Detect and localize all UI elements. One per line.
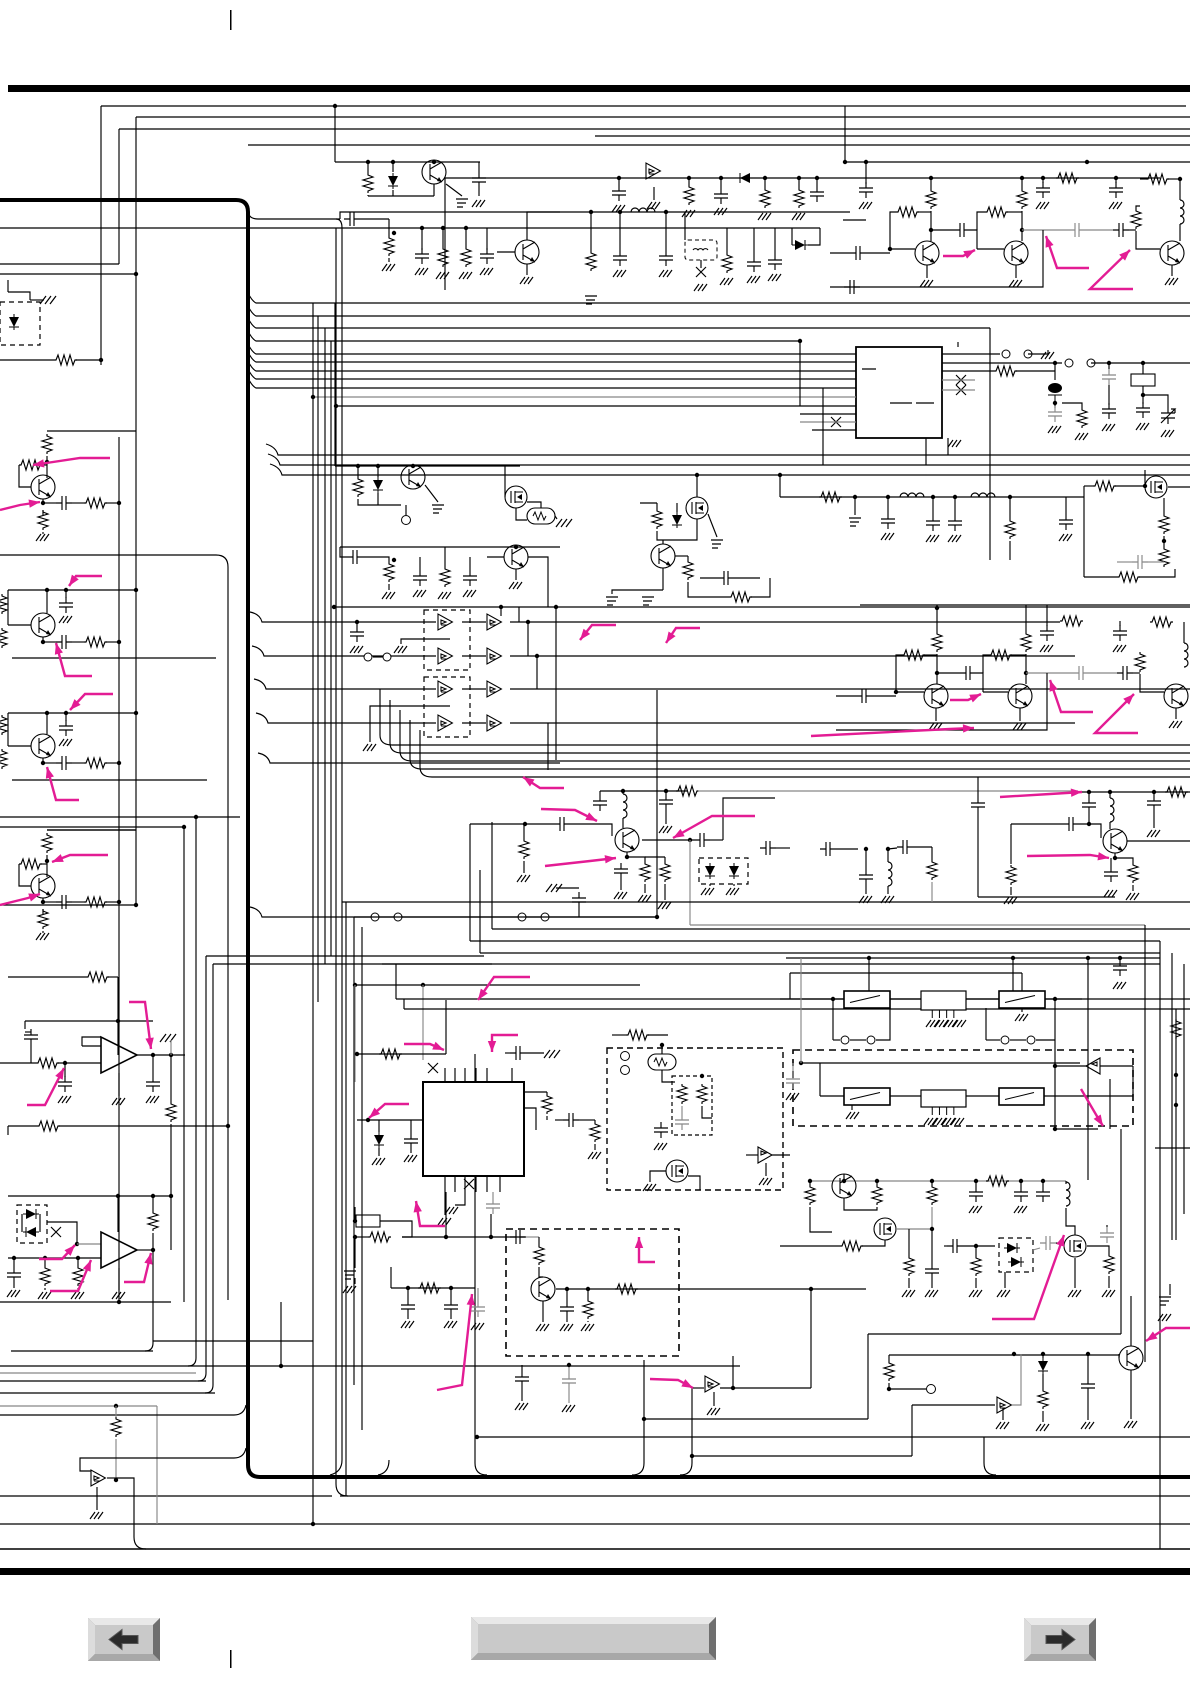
FET Q15 bbox=[1145, 476, 1167, 498]
wire bbox=[720, 178, 722, 188]
wire y902 bbox=[342, 901, 1190, 903]
annotation arrow buffer row1 bbox=[580, 625, 616, 640]
resistor bbox=[872, 1185, 882, 1205]
ground bbox=[436, 272, 449, 279]
capacitor C10 bbox=[714, 188, 728, 204]
wire bbox=[1065, 497, 1067, 514]
wire IC1 left pin bbox=[357, 1119, 423, 1121]
wire bbox=[377, 493, 379, 505]
annotation arrow B4 bbox=[650, 1379, 693, 1388]
wire drop to top cluster bbox=[334, 106, 336, 162]
resistor feedback R bbox=[86, 972, 109, 982]
wire base bbox=[487, 556, 504, 558]
junction bbox=[1041, 176, 1045, 180]
wire bbox=[936, 621, 938, 632]
crystal filter FL2 bbox=[921, 1090, 966, 1107]
wire bbox=[407, 1288, 409, 1299]
wire y1406 bbox=[0, 1405, 157, 1407]
junction bbox=[64, 588, 68, 592]
wire link bbox=[527, 622, 529, 656]
ground bbox=[1126, 893, 1139, 900]
junction bbox=[842, 1179, 846, 1183]
wire bbox=[876, 1008, 890, 1040]
wire bbox=[1004, 1272, 1006, 1288]
wire bus y656 left bbox=[252, 646, 436, 656]
wire bbox=[1140, 674, 1164, 692]
dashed relay unit box bbox=[793, 1050, 1133, 1126]
wire bbox=[357, 466, 359, 477]
terminal bbox=[621, 1052, 630, 1061]
wire bbox=[1062, 403, 1082, 408]
relay RL4 bbox=[999, 1088, 1044, 1105]
terminal bbox=[402, 516, 411, 525]
wire bbox=[504, 492, 506, 497]
capacitor bbox=[1117, 666, 1133, 680]
wire bbox=[983, 691, 1008, 693]
junction to bus bbox=[117, 501, 121, 505]
wire IC1 top pin 4 bbox=[475, 1068, 477, 1082]
resistor bbox=[590, 1122, 600, 1142]
wire bundle y753 bbox=[390, 743, 1190, 753]
diode D1 bbox=[388, 173, 398, 189]
wire bbox=[1179, 224, 1181, 241]
wire bbox=[832, 999, 834, 1040]
wire bbox=[1010, 824, 1012, 864]
wire emitter bbox=[42, 898, 44, 902]
wire y817 bbox=[0, 816, 240, 818]
junction bbox=[930, 1179, 934, 1183]
wire bbox=[1065, 1181, 1067, 1184]
wire bbox=[462, 655, 486, 657]
wire bbox=[516, 508, 527, 520]
wire bbox=[622, 791, 624, 794]
wire output bbox=[137, 1054, 185, 1056]
wire bbox=[65, 590, 67, 598]
crystal filter FL1 bbox=[921, 991, 966, 1010]
wire elbow bbox=[403, 999, 405, 1009]
ground bbox=[948, 535, 961, 542]
annotation arrow VCO bbox=[639, 1237, 655, 1262]
wire bbox=[1088, 813, 1090, 824]
wire bbox=[650, 1171, 666, 1182]
resistor output bbox=[84, 637, 107, 647]
ground bbox=[1048, 426, 1061, 433]
wire bbox=[442, 228, 444, 247]
wire inter-cell bbox=[12, 779, 207, 781]
wire vertical x492 bbox=[491, 822, 493, 929]
wire bbox=[152, 1055, 154, 1076]
capacitor C2 bbox=[344, 212, 360, 226]
wire bbox=[170, 1055, 172, 1102]
capacitor bbox=[1132, 555, 1148, 569]
wire bbox=[888, 1355, 890, 1361]
wire bbox=[360, 218, 389, 220]
wire bbox=[1044, 1095, 1098, 1097]
wire collector up bbox=[527, 212, 560, 240]
junction bbox=[76, 1256, 80, 1260]
capacitor bbox=[856, 689, 872, 703]
wire bbox=[820, 1095, 844, 1097]
wire bbox=[77, 1258, 79, 1266]
ground bbox=[71, 1292, 84, 1299]
hatch gnd bbox=[642, 597, 654, 605]
switch bbox=[1001, 1036, 1009, 1044]
wire bbox=[774, 228, 776, 254]
wire vertical x912 bbox=[911, 1405, 913, 1456]
wire y1126 bbox=[59, 1125, 228, 1127]
resistor bbox=[1006, 865, 1016, 885]
wire base bbox=[890, 248, 915, 250]
wire vertical from V3 bbox=[118, 129, 120, 264]
wire emitter out bbox=[446, 184, 462, 196]
wire bbox=[566, 1317, 568, 1322]
transistor Q20 bbox=[615, 828, 639, 852]
wire relay rail y958 bbox=[786, 957, 1160, 959]
junction to bus bbox=[117, 900, 121, 904]
wire y274 bbox=[0, 273, 136, 275]
wire IC left pin 9 bbox=[800, 421, 856, 423]
wire base loop bbox=[19, 465, 31, 487]
ground under IC bbox=[948, 440, 961, 447]
wire bbox=[401, 639, 450, 644]
ground bbox=[1113, 645, 1126, 652]
capacitor C21 bbox=[1048, 406, 1062, 422]
wire bbox=[1010, 887, 1012, 895]
wire vertical x1055 bbox=[1054, 999, 1056, 1129]
wire IC pin line 2 bbox=[248, 352, 856, 362]
capacitor C9 bbox=[612, 185, 626, 201]
wire bbox=[82, 1037, 101, 1046]
wire bbox=[106, 641, 119, 643]
wire bbox=[568, 1365, 570, 1373]
wire bbox=[433, 184, 435, 196]
wire bbox=[43, 502, 56, 504]
transistor Q10 bbox=[401, 465, 425, 489]
wire bbox=[1056, 1243, 1064, 1244]
wire y1437 bbox=[477, 1436, 1190, 1438]
junction bbox=[809, 1287, 813, 1291]
capacitor C19 bbox=[844, 280, 860, 294]
wire collector down bbox=[528, 557, 548, 607]
capacitor bbox=[1104, 866, 1118, 882]
wire elbow onto bus bbox=[680, 1456, 692, 1475]
wire bbox=[465, 228, 467, 247]
wire bus mid y341 bbox=[248, 331, 800, 341]
junction bbox=[45, 711, 49, 715]
wire drop bbox=[409, 720, 411, 759]
resistor bbox=[519, 839, 529, 859]
wire bbox=[526, 1052, 544, 1054]
wire bbox=[1109, 792, 1111, 798]
resistor R12 bbox=[985, 207, 1008, 217]
wire collector bbox=[642, 839, 694, 841]
wire elbow bbox=[378, 1460, 389, 1475]
resistor bbox=[1060, 616, 1083, 626]
ground bbox=[112, 1098, 125, 1105]
wire bbox=[1100, 1065, 1133, 1067]
terminal bbox=[927, 1385, 936, 1394]
junction bbox=[366, 1118, 370, 1122]
resistor R7 bbox=[684, 185, 694, 205]
junction bbox=[151, 1248, 155, 1252]
wire bbox=[8, 1125, 37, 1127]
wire bbox=[657, 519, 697, 540]
wire vertical x342b bbox=[330, 902, 342, 1475]
ground bbox=[463, 590, 476, 597]
wire bbox=[975, 1246, 977, 1256]
wire y1381 bbox=[0, 1380, 206, 1382]
ground bbox=[654, 1143, 667, 1150]
wire bbox=[106, 502, 119, 504]
ground bbox=[720, 278, 733, 285]
ground bbox=[515, 1403, 528, 1410]
wire IC1 top pin 3 bbox=[464, 1068, 466, 1082]
node bbox=[41, 761, 45, 765]
wire bbox=[780, 998, 844, 1000]
ground bbox=[792, 213, 805, 220]
ground stub bbox=[546, 884, 562, 892]
wire bbox=[665, 810, 667, 824]
wire bbox=[72, 641, 84, 643]
junction bbox=[1086, 956, 1090, 960]
ground bbox=[1161, 430, 1174, 437]
junction bbox=[660, 1043, 664, 1047]
resistor ladder stub bbox=[0, 715, 7, 735]
wire bbox=[1163, 536, 1165, 547]
junction on bus V1 bbox=[333, 104, 337, 108]
wire bbox=[527, 502, 541, 508]
junction bbox=[411, 464, 415, 468]
junction bbox=[226, 1124, 230, 1128]
junction bbox=[420, 226, 424, 230]
resistor bbox=[1038, 1389, 1048, 1409]
wire bbox=[696, 475, 698, 497]
junction bbox=[567, 1363, 571, 1367]
wire bus V5 bbox=[595, 135, 1190, 137]
FET Q32 bbox=[1064, 1235, 1086, 1257]
wire rail y466 bbox=[335, 465, 520, 467]
crossed pin wire bbox=[428, 1063, 438, 1073]
ground bbox=[560, 1324, 573, 1331]
capacitor bbox=[1100, 1227, 1114, 1243]
wire bbox=[1136, 231, 1160, 249]
node collector bbox=[45, 460, 49, 464]
wire y1373 bbox=[0, 1372, 196, 1374]
switch S2 bbox=[1065, 359, 1073, 367]
capacitor bypass bbox=[59, 720, 73, 736]
capacitor C18 bbox=[1109, 182, 1123, 198]
capacitor C12 bbox=[859, 182, 873, 198]
FET Q13 bbox=[686, 497, 708, 519]
wire y999 bbox=[396, 998, 1190, 1000]
annotation arrow op-amp2 output bbox=[124, 1253, 151, 1282]
wire bbox=[963, 1245, 995, 1247]
ground bbox=[90, 1512, 103, 1519]
transistor Q30 bbox=[832, 1174, 856, 1198]
wire vertical x206 bbox=[198, 956, 206, 1381]
resistor bbox=[1021, 632, 1031, 652]
wire bbox=[594, 1144, 596, 1150]
wire rail y547 bbox=[340, 546, 560, 548]
wire bbox=[521, 1365, 523, 1371]
junction bbox=[1020, 176, 1024, 180]
wire collector bbox=[46, 590, 48, 613]
resistor bbox=[368, 1232, 391, 1242]
wire bbox=[896, 655, 902, 692]
wire IC1 bottom pin 2 bbox=[454, 1176, 456, 1192]
wire bbox=[1066, 1208, 1075, 1235]
wire bbox=[692, 1387, 704, 1389]
ground bbox=[38, 1292, 51, 1299]
annotation arrow C16 bbox=[1046, 236, 1089, 268]
wire bbox=[810, 1207, 832, 1232]
wire bbox=[751, 578, 770, 597]
junction bbox=[444, 1235, 448, 1239]
wire vertical x313 bbox=[312, 303, 314, 1524]
ground filter leg bbox=[951, 1118, 964, 1125]
wire bbox=[816, 178, 818, 186]
ground bbox=[701, 888, 714, 895]
wire bbox=[1091, 362, 1190, 364]
capacitor bbox=[786, 1073, 800, 1089]
wire y956 to center bbox=[206, 955, 484, 957]
junction bbox=[332, 605, 336, 609]
resistor bbox=[986, 1176, 1009, 1186]
wire bbox=[612, 1034, 626, 1036]
resistor bbox=[379, 1049, 402, 1059]
resistor top cluster R1 bbox=[363, 173, 373, 193]
capacitor bbox=[572, 892, 586, 908]
wire power leg bbox=[118, 1268, 120, 1290]
wire bbox=[1022, 229, 1069, 231]
junction bbox=[134, 588, 138, 592]
capacitor bbox=[413, 570, 427, 586]
wire bbox=[407, 1315, 409, 1319]
capacitor bbox=[971, 797, 985, 813]
ground bbox=[925, 1290, 938, 1297]
wire bbox=[30, 299, 44, 301]
junction bbox=[194, 815, 198, 819]
wire bbox=[865, 885, 867, 894]
wire y1366 bbox=[0, 1365, 740, 1367]
junction bbox=[1024, 671, 1028, 675]
wire vertical x1088 bbox=[1087, 958, 1089, 1180]
junction bbox=[875, 1179, 879, 1183]
junction bbox=[523, 822, 527, 826]
wire bbox=[888, 848, 897, 849]
junction bbox=[589, 210, 593, 214]
junction bbox=[134, 272, 138, 276]
wire bbox=[421, 228, 423, 250]
page nav blank button bbox=[471, 1617, 716, 1660]
annotation arrow cell4 top bbox=[52, 855, 108, 862]
wire bbox=[746, 1154, 758, 1156]
wire relay rail y973 bbox=[790, 972, 1022, 974]
wire bus mid y455 bbox=[266, 444, 1190, 455]
resistor bbox=[1165, 787, 1188, 797]
wire vertical x157 bbox=[156, 1406, 158, 1524]
wire bbox=[1025, 621, 1027, 632]
wire rail y1181 bbox=[810, 1180, 1066, 1182]
variable resistor bbox=[384, 562, 394, 582]
wire bbox=[1009, 497, 1011, 519]
capacitor coupling bbox=[56, 496, 72, 510]
page tick mark top bbox=[230, 10, 232, 30]
wire bbox=[43, 641, 56, 643]
wire bbox=[555, 516, 557, 519]
wire bbox=[931, 1279, 933, 1288]
wire rail y178 long bbox=[445, 177, 1160, 179]
junction bbox=[1118, 956, 1122, 960]
transistor Q3 bbox=[915, 241, 939, 265]
wire op-amp top rail bbox=[25, 1020, 153, 1022]
wire bbox=[753, 228, 755, 256]
resonator bbox=[527, 508, 555, 524]
ground bbox=[343, 1286, 356, 1293]
wire bbox=[455, 1192, 465, 1205]
resistor bbox=[1150, 617, 1173, 627]
wire power leg bbox=[118, 1073, 120, 1096]
wire bbox=[44, 1288, 46, 1290]
junction bbox=[565, 1287, 569, 1291]
wire IC pin line 5 bbox=[248, 378, 856, 388]
junction bbox=[475, 1435, 479, 1439]
junction bbox=[617, 176, 621, 180]
wire vertical x213 bbox=[205, 964, 213, 1393]
ground filter leg bbox=[942, 1118, 955, 1125]
ground bbox=[536, 1324, 549, 1331]
ground filter leg bbox=[926, 1020, 939, 1027]
wire bbox=[546, 1116, 548, 1120]
ground bbox=[382, 592, 395, 599]
annotation arrow IC1 left pin bbox=[369, 1104, 409, 1118]
capacitor bbox=[718, 571, 734, 585]
wire IC1 bottom pin 6 bbox=[499, 1176, 501, 1192]
wire bbox=[72, 901, 84, 903]
ground bbox=[997, 1290, 1010, 1297]
wire bbox=[926, 265, 928, 278]
wire IC1 top pin 2 bbox=[454, 1068, 456, 1082]
wire rail regulator bbox=[335, 161, 480, 163]
tap dot bbox=[392, 231, 396, 235]
wire bbox=[354, 1278, 356, 1284]
wire base line bbox=[1011, 823, 1063, 825]
wire vertical x184 bbox=[183, 827, 185, 1302]
junction bbox=[366, 160, 370, 164]
wire y964 bbox=[382, 963, 1160, 965]
wire bbox=[13, 1258, 15, 1267]
capacitor bbox=[404, 1133, 418, 1149]
capacitor bbox=[486, 1198, 500, 1214]
wire bbox=[662, 1070, 675, 1082]
ground bbox=[59, 616, 72, 623]
dashed buffer box 1 bbox=[424, 610, 470, 670]
wire y1456 bbox=[692, 1455, 912, 1457]
annotation arrow Q20 collector bbox=[673, 816, 755, 838]
annotation arrow above IC1 bbox=[478, 977, 530, 1000]
wire bbox=[77, 1288, 79, 1290]
wire bbox=[378, 1148, 380, 1156]
ground bbox=[350, 646, 363, 653]
junction bbox=[894, 690, 898, 694]
wire bbox=[1045, 998, 1082, 1000]
junction bbox=[642, 1417, 646, 1421]
wire bbox=[975, 1181, 977, 1186]
wire return bbox=[836, 673, 1047, 730]
wire bbox=[1108, 385, 1110, 405]
junction bbox=[169, 1053, 173, 1057]
IC pin-1 marks bbox=[862, 369, 934, 403]
